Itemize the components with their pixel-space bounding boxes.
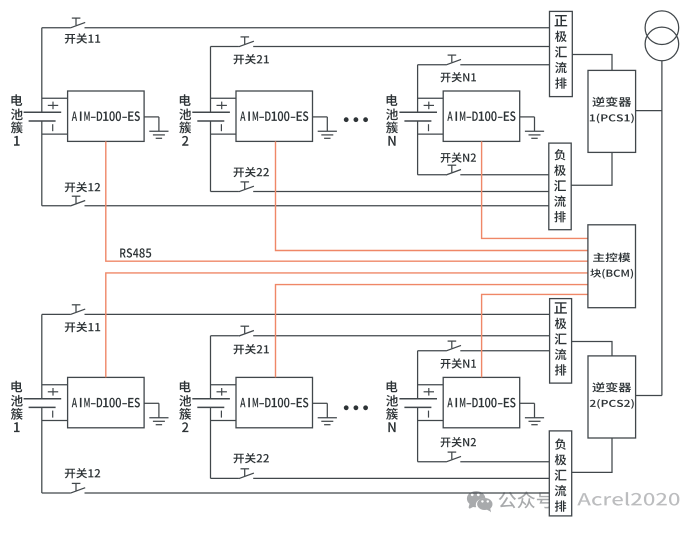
wire - stub into AIM bottom cluster1: [42, 420, 68, 422]
label 开关N1 top: [441, 72, 476, 82]
label AIM-D100-ES U21: [72, 398, 140, 408]
label 开关11 bottom: [65, 322, 100, 332]
switch 开关12 bottom: [70, 483, 85, 493]
ellipsis dots bottom: [344, 405, 368, 410]
transformer T1: [645, 11, 679, 61]
ground of AIM U11: [144, 117, 168, 138]
AIM-D100-ES module U1N box: [443, 91, 520, 141]
ground of AIM U1N: [520, 117, 544, 138]
wire top cluster2 positive rail to busbar: [211, 46, 550, 48]
busbar 正极汇流排 top box: [550, 11, 573, 96]
label 开关N2 top: [441, 152, 476, 162]
wire bottom clusterN positive rail to busbar: [418, 350, 550, 352]
wire bottom cluster2 negative rail to busbar: [211, 477, 550, 479]
wire + stub into AIM bottom cluster1: [42, 384, 68, 386]
wire - stub into AIM top cluster2: [211, 133, 237, 135]
ground of AIM U21: [144, 403, 168, 424]
battery cluster1 top: [24, 112, 62, 121]
battery clusterN bottom: [399, 399, 437, 408]
ellipsis dots top: [344, 117, 368, 122]
switch 开关21 top: [239, 37, 254, 47]
AIM-D100-ES module U22 box: [236, 377, 313, 427]
busbar 负极汇流排 bottom box: [549, 431, 571, 516]
label - battery top clusterN: [428, 124, 430, 131]
label 电池簇2 top: [179, 94, 191, 145]
label 正极汇流排 top: [555, 15, 568, 89]
label AIM-D100-ES U2N: [447, 398, 515, 408]
battery cluster2 top: [192, 112, 230, 121]
watermark label 公众号: [499, 491, 554, 508]
busbar 负极汇流排 top box: [549, 143, 571, 230]
label 电池簇1 bottom: [11, 381, 23, 432]
battery cluster1 bottom: [24, 399, 62, 408]
label 开关12 bottom: [65, 468, 100, 478]
wire 正极汇流排 bottom to inverter: [572, 342, 612, 356]
AIM-D100-ES module U21 box: [68, 377, 145, 427]
watermark label Acrel2020: [577, 492, 679, 506]
wire top clusterN positive rail to busbar: [418, 64, 550, 66]
label AIM-D100-ES U12: [240, 111, 308, 121]
wire bottom clusterN negative rail to busbar: [418, 461, 550, 463]
wire - stub into AIM top clusterN: [418, 133, 444, 135]
switch 开关21 bottom: [239, 326, 254, 336]
RS485 wire bottom AIM-N to BCM: [482, 294, 588, 377]
label 逆变器2 PCS2: [590, 382, 634, 409]
wire bottom cluster1 battery column: [41, 314, 43, 493]
AIM-D100-ES module U2N box: [443, 377, 520, 427]
label + battery top clusterN: [424, 102, 434, 110]
ground of AIM U2N: [520, 403, 544, 424]
wire + stub into AIM top cluster2: [211, 97, 237, 99]
label + battery top cluster1: [48, 102, 58, 110]
RS485 wire top AIM-2 to BCM: [276, 141, 588, 250]
label 开关12 top: [65, 182, 100, 192]
wire top cluster2 negative rail to busbar: [211, 191, 549, 193]
RS485 wire bottom AIM-1 to BCM: [106, 273, 588, 378]
switch 开关22 top: [239, 182, 254, 192]
switch 开关N2 top: [446, 165, 461, 175]
inverter PCS2 box: [588, 356, 636, 438]
switch 开关N1 bottom: [446, 341, 461, 351]
switch 开关12 top: [70, 196, 85, 206]
label 负极汇流排 top: [554, 149, 566, 222]
wire bottom cluster2 positive rail to busbar: [211, 335, 550, 337]
switch 开关11 bottom: [70, 305, 85, 315]
label 电池簇2 bottom: [179, 381, 191, 432]
wire bottom cluster1 negative rail to busbar: [42, 492, 550, 494]
label AIM-D100-ES U1N: [447, 111, 515, 121]
ground of AIM U22: [313, 403, 337, 424]
wire bottom clusterN battery column: [417, 351, 419, 462]
wire grid column from transformer: [661, 61, 663, 396]
label 开关11 top: [65, 33, 100, 43]
label 开关21 top: [234, 54, 269, 64]
label 电池簇N top: [386, 94, 398, 145]
label 开关N2 bottom: [441, 437, 476, 447]
label + battery top cluster2: [217, 102, 227, 110]
wire bottom cluster1 positive rail to busbar: [42, 313, 550, 315]
wire top cluster1 positive rail to busbar: [42, 27, 550, 29]
label 电池簇1 top: [11, 94, 23, 145]
RS485 wire top AIM-1 to BCM: [106, 141, 588, 261]
switch 开关N1 top: [446, 55, 461, 65]
label - battery top cluster2: [220, 124, 222, 131]
ground of AIM U12: [313, 117, 337, 138]
inverter PCS1 box: [588, 70, 636, 152]
wire - stub into AIM bottom cluster2: [211, 420, 237, 422]
label 开关22 bottom: [234, 453, 269, 463]
label 逆变器1 PCS1: [590, 97, 634, 124]
wire 负极汇流排 bottom to inverter: [572, 438, 612, 472]
wire 正极汇流排 top to inverter: [572, 55, 612, 71]
wire + stub into AIM top cluster1: [42, 97, 68, 99]
label + battery bottom cluster1: [48, 388, 58, 396]
AIM-D100-ES module U12 box: [236, 91, 313, 141]
wire top clusterN battery column: [417, 65, 419, 175]
label 开关22 top: [234, 167, 269, 177]
RS485 wire bottom AIM-2 to BCM: [276, 285, 588, 378]
wire - stub into AIM top cluster1: [42, 133, 68, 135]
label RS485: [120, 248, 151, 257]
label 主控模块(BCM): [590, 253, 633, 279]
busbar 正极汇流排 bottom box: [550, 299, 572, 384]
switch 开关11 top: [70, 18, 85, 28]
wire + stub into AIM bottom clusterN: [418, 384, 444, 386]
label - battery bottom cluster1: [52, 411, 54, 418]
wire top cluster2 battery column: [210, 47, 212, 192]
AIM-D100-ES module U11 box: [68, 91, 145, 141]
label 负极汇流排 bottom: [555, 438, 567, 511]
label 正极汇流排 bottom: [554, 302, 567, 375]
wire - stub into AIM bottom clusterN: [418, 420, 444, 422]
label AIM-D100-ES U22: [240, 398, 308, 408]
battery cluster2 bottom: [192, 399, 230, 408]
label - battery bottom cluster2: [220, 411, 222, 418]
RS485 wire top AIM-N to BCM: [482, 141, 588, 238]
switch 开关22 bottom: [239, 469, 254, 479]
label AIM-D100-ES U11: [72, 111, 140, 121]
label 开关N1 bottom: [441, 358, 476, 368]
label + battery bottom cluster2: [217, 388, 227, 396]
wire 负极汇流排 top to inverter: [571, 152, 612, 185]
wire inverter PCS2 to grid column: [636, 395, 662, 397]
switch 开关N2 bottom: [446, 452, 461, 462]
wire bottom cluster2 battery column: [210, 336, 212, 479]
label - battery top cluster1: [52, 124, 54, 131]
wire + stub into AIM bottom cluster2: [211, 384, 237, 386]
wire inverter PCS1 to grid column: [636, 110, 662, 112]
wire top clusterN negative rail to busbar: [418, 174, 549, 176]
label 开关21 bottom: [234, 344, 269, 354]
wire top cluster1 battery column: [41, 28, 43, 206]
label + battery bottom clusterN: [424, 388, 434, 396]
wire top cluster1 negative rail to busbar: [42, 205, 549, 207]
label - battery bottom clusterN: [428, 411, 430, 418]
battery clusterN top: [399, 112, 437, 121]
wire + stub into AIM top clusterN: [418, 97, 444, 99]
label 电池簇N bottom: [386, 381, 398, 432]
controller 主控模块 BCM box: [588, 225, 636, 308]
watermark wechat icon: [467, 491, 493, 512]
